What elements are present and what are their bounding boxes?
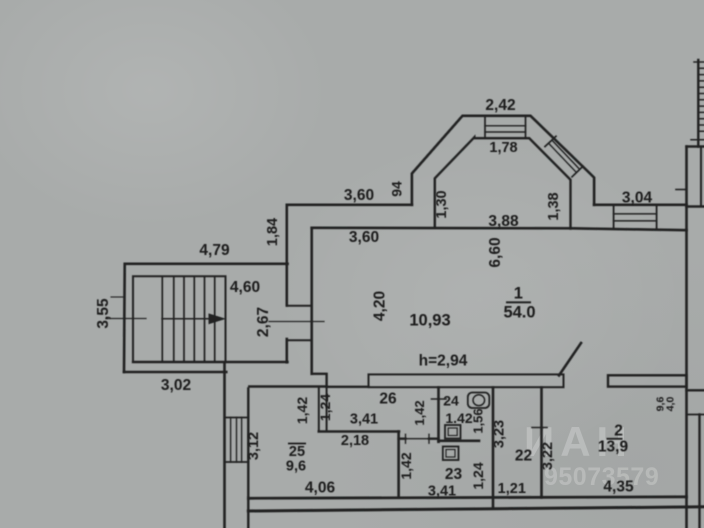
svg-text:3,41: 3,41	[428, 484, 456, 500]
svg-text:6,60: 6,60	[487, 237, 504, 267]
wire inner wall y228	[312, 228, 687, 230]
window W5 room25 3.12	[225, 418, 249, 463]
wire stair right wall upper	[285, 205, 288, 306]
svg-text:3,60: 3,60	[344, 187, 374, 204]
wire outer wall top-right	[594, 204, 686, 207]
door D3 leaf	[559, 343, 581, 375]
wire stair block outer walls	[124, 264, 288, 372]
wire lower-left outer wall line1	[223, 362, 226, 528]
svg-text:3,04: 3,04	[622, 190, 653, 207]
wire corridor step	[312, 374, 327, 387]
svg-text:h=2,94: h=2,94	[419, 353, 468, 370]
svg-text:2,18: 2,18	[341, 433, 369, 449]
svg-text:4,0: 4,0	[665, 397, 677, 412]
dimension tick left of stairs	[106, 318, 146, 320]
wire antresol band h=2.94	[369, 374, 564, 387]
door D4 tick wc	[432, 398, 447, 400]
svg-text:4,20: 4,20	[372, 291, 389, 321]
window W2 diagonal bay	[545, 136, 583, 177]
wire right outer wall	[685, 147, 688, 528]
svg-text:3,12: 3,12	[246, 432, 262, 460]
svg-text:4,60: 4,60	[230, 279, 260, 296]
svg-text:1,21: 1,21	[498, 481, 526, 497]
svg-text:3,22: 3,22	[540, 442, 556, 470]
wire bay inner walls	[435, 137, 571, 228]
svg-text:1,38: 1,38	[546, 192, 562, 220]
wire outer wall top-left (3.60)	[288, 204, 412, 207]
svg-text:1,30: 1,30	[434, 190, 450, 218]
window W4 right edge hatch	[691, 62, 704, 140]
wire stair inner box	[133, 276, 226, 362]
wire bottom wall line A	[248, 497, 686, 499]
wire corridor left wall	[310, 228, 313, 374]
wire right edge stub y189	[676, 189, 687, 191]
window W1 top bay	[485, 116, 526, 138]
svg-text:3,23: 3,23	[492, 420, 508, 448]
svg-text:1,42: 1,42	[398, 452, 414, 479]
wire corridor bottom wall 2.18	[319, 430, 399, 433]
wire room25 top wall	[249, 385, 326, 387]
svg-text:13,9: 13,9	[598, 439, 629, 456]
wire room23 left wall	[397, 432, 400, 498]
svg-text:23: 23	[445, 466, 463, 483]
svg-text:3,41: 3,41	[350, 412, 378, 428]
svg-text:1,42: 1,42	[412, 400, 427, 425]
svg-text:3,55: 3,55	[95, 298, 112, 329]
svg-text:9,6: 9,6	[286, 459, 306, 475]
svg-text:95073579: 95073579	[544, 463, 659, 491]
wire right edge vertical top	[700, 147, 702, 207]
svg-text:4,06: 4,06	[305, 480, 336, 497]
toilet fixture	[468, 393, 490, 409]
window W3 balcony 3.04	[614, 205, 657, 230]
svg-text:94: 94	[389, 181, 405, 197]
wire wall x493	[492, 388, 495, 509]
wire thick wall room2 top	[608, 375, 687, 386]
wire right edge stub y390	[687, 389, 704, 391]
stair steps	[162, 276, 214, 362]
wire lobby stub top	[287, 305, 312, 307]
wire right edge stub y206.5	[687, 205, 704, 207]
svg-text:4,35: 4,35	[603, 479, 634, 496]
wire top-right corner wall	[697, 60, 699, 147]
svg-text:2,67: 2,67	[255, 307, 272, 337]
wire stair right wall lower	[285, 339, 288, 362]
svg-text:3,88: 3,88	[488, 213, 519, 230]
svg-text:54.0: 54.0	[503, 304, 535, 322]
svg-text:2,42: 2,42	[485, 97, 515, 114]
room1 underline	[506, 301, 531, 303]
svg-text:1,42: 1,42	[294, 397, 310, 424]
wire right edge stub y414.5	[687, 414, 704, 416]
svg-text:3,02: 3,02	[161, 377, 191, 394]
svg-text:1,84: 1,84	[265, 218, 281, 246]
svg-text:3,60: 3,60	[349, 229, 379, 246]
svg-text:2: 2	[614, 423, 623, 440]
wire thin wall pair x318-327	[319, 387, 327, 431]
room25 overline	[288, 443, 306, 445]
door D1 sill	[399, 438, 439, 440]
wire wc left wall	[437, 388, 440, 442]
sink fixture room23	[443, 447, 459, 461]
sink fixture wc	[445, 425, 461, 439]
svg-text:26: 26	[379, 391, 397, 408]
svg-text:4,79: 4,79	[199, 242, 230, 259]
svg-text:10,93: 10,93	[409, 312, 450, 330]
wire bay outer walls	[412, 116, 594, 205]
room2 underline	[607, 438, 623, 440]
svg-text:1: 1	[514, 285, 523, 303]
dimension tick right of stairs	[269, 321, 324, 323]
wire lobby stub bottom	[287, 339, 312, 341]
svg-text:1,78: 1,78	[489, 140, 517, 156]
svg-text:24: 24	[443, 393, 459, 409]
wire wc bottom wall	[439, 439, 480, 442]
svg-text:1,56: 1,56	[471, 408, 486, 433]
wire corridor top wall	[327, 386, 369, 388]
svg-text:22: 22	[515, 448, 532, 465]
svg-text:1,24: 1,24	[470, 462, 486, 489]
wire right edge vertical bottom	[698, 415, 700, 528]
svg-text:1.42: 1.42	[445, 410, 472, 426]
door D2 tick	[532, 427, 547, 429]
svg-text:1,24: 1,24	[317, 394, 333, 421]
stair arrow	[162, 318, 219, 320]
wire wall x541	[540, 388, 543, 498]
wire lower-left outer wall line2	[247, 389, 249, 528]
wire bottom wall line B	[248, 507, 704, 511]
